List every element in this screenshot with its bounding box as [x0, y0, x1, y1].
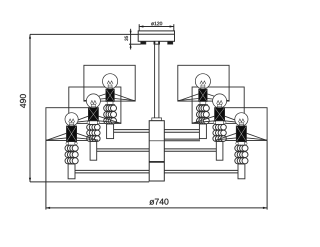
dimension 490 height [20, 34, 149, 182]
shade box tier 2 left [69, 87, 121, 123]
shade box tier 2 right [192, 87, 244, 123]
ceiling canopy [138, 31, 174, 41]
arm pair tier 3 left [75, 170, 150, 173]
lamp tier 3 left (bulb, socket, drip rings, tube) [46, 113, 98, 179]
dimension diameter 740 width [46, 141, 267, 210]
shade box tier 1 left [84, 65, 135, 101]
lamp tier 2 right (bulb, socket, drip rings, tube) [192, 94, 244, 160]
lamp tier 2 left (bulb, socket, drip rings, tube) [69, 94, 121, 160]
dimension diameter 120 canopy [139, 22, 174, 31]
canopy feet [141, 41, 173, 44]
central column body [149, 118, 164, 181]
dimension 35 canopy height [125, 29, 141, 50]
lamp tier 1 left (bulb, socket, drip rings, tube) [84, 74, 135, 139]
arm pair tier 2 right [163, 149, 216, 151]
lamp tier 3 right (bulb, socket, drip rings, tube) [215, 113, 267, 179]
arm pair tier 3 right [163, 170, 238, 173]
arm pair tier 1 right [163, 130, 199, 133]
lamp tier 1 right (bulb, socket, drip rings, tube) [178, 74, 229, 139]
arm pair tier 2 left [97, 149, 150, 151]
shade box tier 3 right [215, 108, 267, 141]
shade box tier 3 left [46, 108, 98, 141]
central stem rod [155, 44, 159, 118]
arm pair lower right [163, 139, 200, 141]
arm pair tier 1 left [114, 130, 150, 133]
shade box tier 1 right [178, 65, 229, 101]
